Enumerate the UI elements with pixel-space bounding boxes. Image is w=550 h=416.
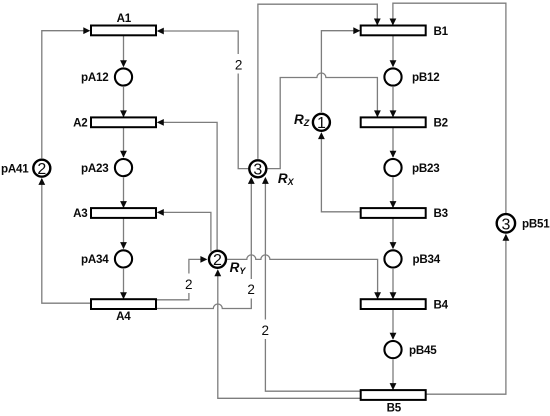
transition A3 [73, 207, 156, 220]
wire RX to A1 weight 2 [157, 28, 248, 169]
wire RX to B2 [267, 73, 380, 169]
wire A3 to pA34 [120, 218, 127, 249]
transition B3 [361, 207, 449, 220]
wire pA41 to A1 [42, 27, 91, 158]
wire A4 to RX weight 2 [156, 177, 257, 309]
place pB45 [384, 341, 437, 358]
wire B2 to pB23 [390, 127, 397, 158]
wire RX to B1 [258, 4, 381, 159]
wire B1 to pB12 [390, 35, 397, 67]
svg-text:B4: B4 [434, 298, 449, 311]
svg-text:3: 3 [253, 162, 262, 179]
svg-text:2: 2 [261, 323, 269, 338]
place RY marking 2 [209, 251, 246, 276]
place RX marking 3 [249, 160, 294, 187]
wire B3 to pB34 [390, 218, 397, 249]
place pA23 [81, 159, 132, 176]
wire B3 to RZ [318, 132, 361, 212]
svg-text:A4: A4 [116, 310, 131, 323]
svg-text:pB45: pB45 [409, 344, 437, 357]
svg-text:pA23: pA23 [81, 162, 109, 175]
place pA41 marking 2 [1, 160, 50, 178]
wire B4 to pB45 [390, 309, 397, 340]
svg-text:A1: A1 [117, 12, 132, 25]
wire A2 to pA23 [120, 127, 127, 158]
wire RY to A2 [157, 119, 217, 250]
transition B2 [361, 117, 448, 130]
wire RY to A3 [157, 209, 211, 252]
svg-text:B2: B2 [434, 117, 448, 130]
svg-text:B5: B5 [387, 401, 402, 414]
svg-text:2: 2 [37, 161, 46, 178]
place pB51 marking 3 [497, 214, 550, 234]
transition B1 [361, 25, 449, 38]
wire A4 to RY weight 2 [156, 256, 207, 300]
wire pB51 to B1 [390, 3, 506, 213]
svg-text:pA12: pA12 [81, 71, 109, 84]
wire B5 to pB51 [426, 234, 510, 395]
svg-text:pB34: pB34 [413, 253, 441, 266]
svg-text:pB23: pB23 [412, 162, 440, 175]
transition B5 [361, 390, 426, 414]
place pA34 [81, 250, 132, 267]
transition A2 [73, 117, 156, 130]
svg-text:2: 2 [185, 277, 193, 292]
transition B4 [361, 298, 449, 311]
wire B5 to RX weight 2 [259, 177, 360, 391]
wire RZ to B1 [321, 27, 360, 112]
wire pB12 to B2 [390, 87, 397, 117]
wire B5 to RY [214, 269, 360, 398]
place pB34 [384, 250, 440, 267]
wire pA12 to A2 [120, 87, 127, 117]
svg-text:pB51: pB51 [522, 218, 550, 231]
svg-text:2: 2 [235, 57, 243, 72]
transition A1 [91, 12, 156, 35]
svg-text:3: 3 [501, 217, 510, 234]
wire pB34 to B4 [390, 269, 397, 299]
wire RY to B4 [227, 255, 381, 299]
svg-text:pA41: pA41 [1, 163, 29, 176]
place pB23 [384, 159, 440, 176]
place pA12 [81, 68, 132, 85]
wire A1 to pA12 [120, 35, 127, 67]
svg-text:1: 1 [317, 115, 326, 132]
place pB12 [384, 68, 439, 85]
svg-text:A3: A3 [73, 207, 88, 220]
svg-text:2: 2 [213, 252, 222, 269]
svg-text:B3: B3 [434, 207, 449, 220]
transition A4 [91, 299, 156, 323]
svg-text:pB12: pB12 [412, 71, 440, 84]
place RZ marking 1 [294, 112, 330, 132]
wire pB45 to B5 [390, 360, 397, 391]
svg-text:B1: B1 [434, 25, 449, 38]
svg-text:2: 2 [247, 282, 255, 297]
wire pA23 to A3 [120, 178, 127, 209]
wire pB23 to B3 [390, 178, 397, 209]
wire A4 to pA41 [38, 178, 91, 303]
svg-text:A2: A2 [73, 117, 87, 130]
wire pA34 to A4 [120, 269, 127, 299]
svg-text:pA34: pA34 [81, 253, 109, 266]
